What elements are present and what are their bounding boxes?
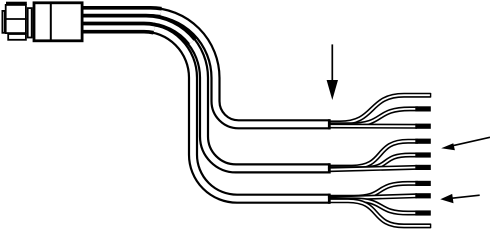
terminal 2-3	[415, 165, 431, 170]
jacket end band run 2	[328, 163, 331, 173]
terminal 3-3	[415, 210, 431, 215]
cable 3 (bottom cable: bundle, bend, drop, elbow to run 3)	[84, 28, 331, 199]
wire 3-3 (down to terminal y=213)	[328, 200, 418, 213]
connector nut body	[6, 5, 26, 33]
connector tab (far left)	[2, 11, 4, 33]
arrow 2 (upper right, pointing left)	[450, 137, 490, 146]
connector body	[34, 3, 82, 41]
terminal 2-2	[415, 152, 431, 157]
arrow 3 (lower right, pointing left)	[451, 195, 480, 198]
run 2 wires	[328, 141, 418, 170]
terminal 3-1	[415, 181, 431, 186]
arrow 1 (vertical, pointing down)	[331, 44, 333, 82]
terminal 1-3	[415, 124, 431, 129]
terminal 1-2	[415, 106, 431, 111]
bundle cable 1	[84, 6, 161, 19]
terminal 2-1	[415, 139, 431, 144]
terminal 3-2	[415, 193, 431, 198]
cable 1 (top cable: bundle, bend, drop, elbow to run 1)	[84, 12, 331, 124]
run 3 wires	[328, 183, 431, 226]
wire 1-3 (straight, terminal)	[328, 124, 417, 129]
bundle cable 3	[84, 28, 155, 29]
connector nut mid line	[5, 18, 27, 20]
bundle cable 2	[84, 20, 192, 42]
connector body divider	[50, 2, 52, 42]
jacket end band run 3	[328, 194, 331, 204]
connector nut top flange	[7, 3, 26, 5]
jacket end band run 1	[328, 119, 331, 129]
open wire 3-4 end cap	[430, 224, 432, 228]
connector nut bottom flange	[8, 34, 26, 40]
wire 3-4 (down, open end y=225.9)	[328, 201, 431, 226]
wire 1-2 (to terminal y=109.8)	[328, 109, 418, 125]
wire 2-2 (to terminal y=155)	[328, 155, 418, 169]
wire 1-1 (open end, to y=95.2)	[328, 95, 431, 123]
cable 2 (middle cable: bundle, bend, drop, elbow to run 2)	[84, 20, 331, 169]
wire 3-2 (straight, terminal)	[328, 196, 417, 199]
wire 2-3 (straight, terminal)	[328, 167, 417, 169]
connector collar	[28, 8, 32, 37]
run 1 wires	[328, 95, 431, 126]
bundle overdraw (thick merged jacket look near connector)	[84, 12, 192, 42]
open wire 1-1 end cap	[430, 93, 432, 97]
wire 2-1 (to terminal y=141.2)	[328, 141, 418, 167]
wire 3-1 (up to terminal y=183.4)	[328, 183, 418, 197]
